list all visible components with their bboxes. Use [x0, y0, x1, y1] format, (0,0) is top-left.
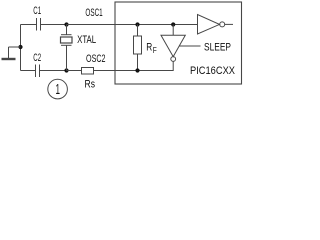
resistor RF	[134, 25, 142, 71]
svg-text:C1: C1	[33, 5, 41, 17]
ground	[2, 45, 23, 59]
wire buffer output	[225, 23, 233, 25]
svg-text:1: 1	[56, 81, 61, 98]
svg-text:OSC2: OSC2	[86, 53, 106, 65]
wire Rs into chip	[94, 70, 116, 72]
capacitor C1	[37, 18, 41, 31]
junction dot RF top	[135, 22, 139, 26]
wire OSC1 node into chip	[67, 24, 116, 26]
transistor Q1 inverter (SLEEP gated)	[161, 25, 185, 62]
wire OSC2 node to Rs	[67, 70, 82, 72]
op-amp U2 buffer to internal logic	[198, 15, 225, 35]
junction dot inverter input	[171, 22, 175, 26]
op-amp U1 chip box PIC16CXX	[115, 2, 242, 84]
svg-text:PIC16CXX: PIC16CXX	[190, 65, 236, 77]
svg-text:C2: C2	[33, 52, 41, 64]
crystal XTAL	[61, 25, 73, 71]
wire SLEEP input	[179, 45, 201, 47]
node OSC2 junction dot	[64, 68, 68, 72]
svg-text:F: F	[153, 46, 157, 55]
node 1 callout circle	[48, 79, 68, 99]
svg-text:SLEEP: SLEEP	[204, 41, 231, 53]
wire left vertical rail	[20, 25, 22, 71]
svg-text:OSC1: OSC1	[85, 7, 102, 19]
wire OSC1 inside chip	[115, 24, 198, 26]
wire bottom-left horizontal to C2	[21, 70, 36, 72]
svg-text:R: R	[146, 41, 152, 53]
svg-text:Rs: Rs	[85, 78, 96, 90]
resistor Rs	[82, 68, 94, 75]
node OSC1 junction dot	[64, 22, 68, 26]
wire C1 to OSC1 node	[41, 24, 67, 26]
wire top-left horizontal to C1	[21, 24, 37, 26]
svg-text:XTAL: XTAL	[77, 34, 96, 46]
wire C2 to OSC2 node	[40, 70, 67, 72]
wire OSC2 inside chip	[115, 62, 173, 71]
capacitor C2	[36, 65, 40, 78]
junction dot RF bottom	[135, 68, 139, 72]
